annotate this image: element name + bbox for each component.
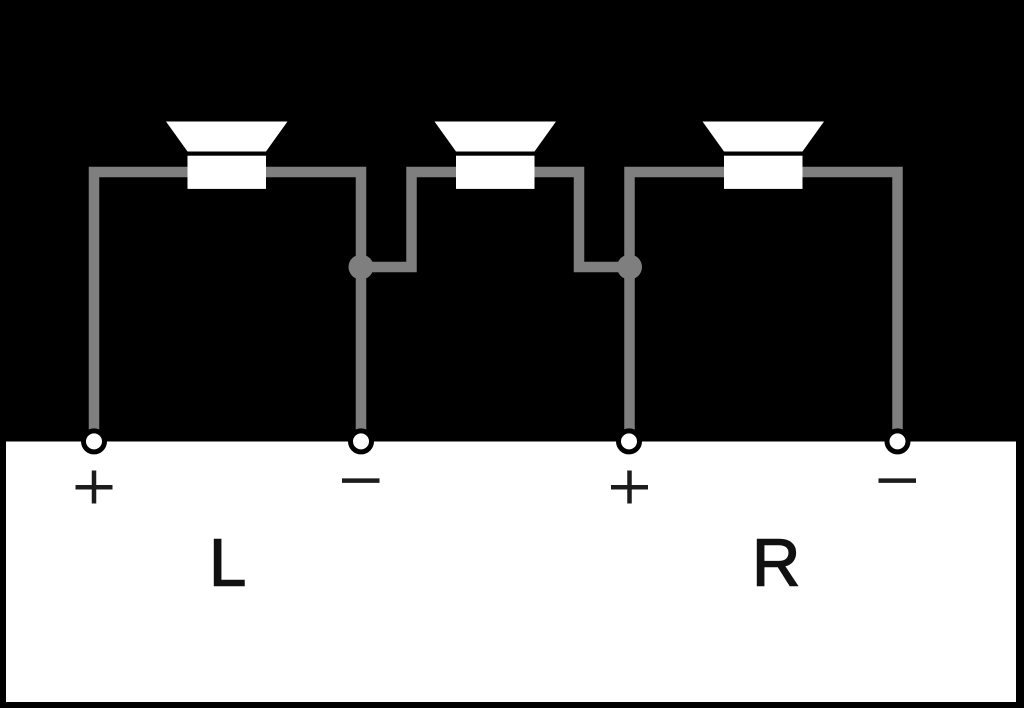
svg-text:L: L [209, 525, 246, 600]
terminal 2 (L-) binding post [351, 431, 372, 452]
loudspeaker LS3 [703, 122, 825, 189]
polarity label + at terminal 3 [611, 471, 648, 504]
wire: LS1 plus terminal to amplifier terminal 1 (L+) [94, 172, 188, 432]
loudspeaker LS2 [435, 122, 557, 189]
wire: LS1 minus terminal down to amplifier terminal 2 (L-) through junction A [265, 172, 361, 432]
polarity label - at terminal 4 [879, 478, 917, 483]
wire: junction A stub up to LS2 plus terminal [358, 172, 457, 267]
terminal 3 (R+) binding post [619, 431, 640, 452]
wire: LS2 minus terminal to junction B stub [532, 172, 632, 267]
svg-text:R: R [752, 525, 800, 600]
polarity label - at terminal 2 [342, 478, 380, 483]
wire: LS3 minus terminal to amplifier terminal 4 (R-) [801, 172, 898, 432]
terminal 1 (L+) binding post [84, 431, 105, 452]
wire: amplifier terminal 3 (R+) up through junction B to LS3 plus terminal [630, 172, 725, 432]
polarity label + at terminal 1 [76, 471, 113, 504]
junction A (node on L- wire) [349, 255, 374, 280]
loudspeaker LS1 [166, 122, 288, 189]
terminal 4 (R-) binding post [887, 431, 908, 452]
amplifier box (white panel with black border) [6, 442, 1016, 703]
junction B (node on R+ wire) [617, 255, 642, 280]
